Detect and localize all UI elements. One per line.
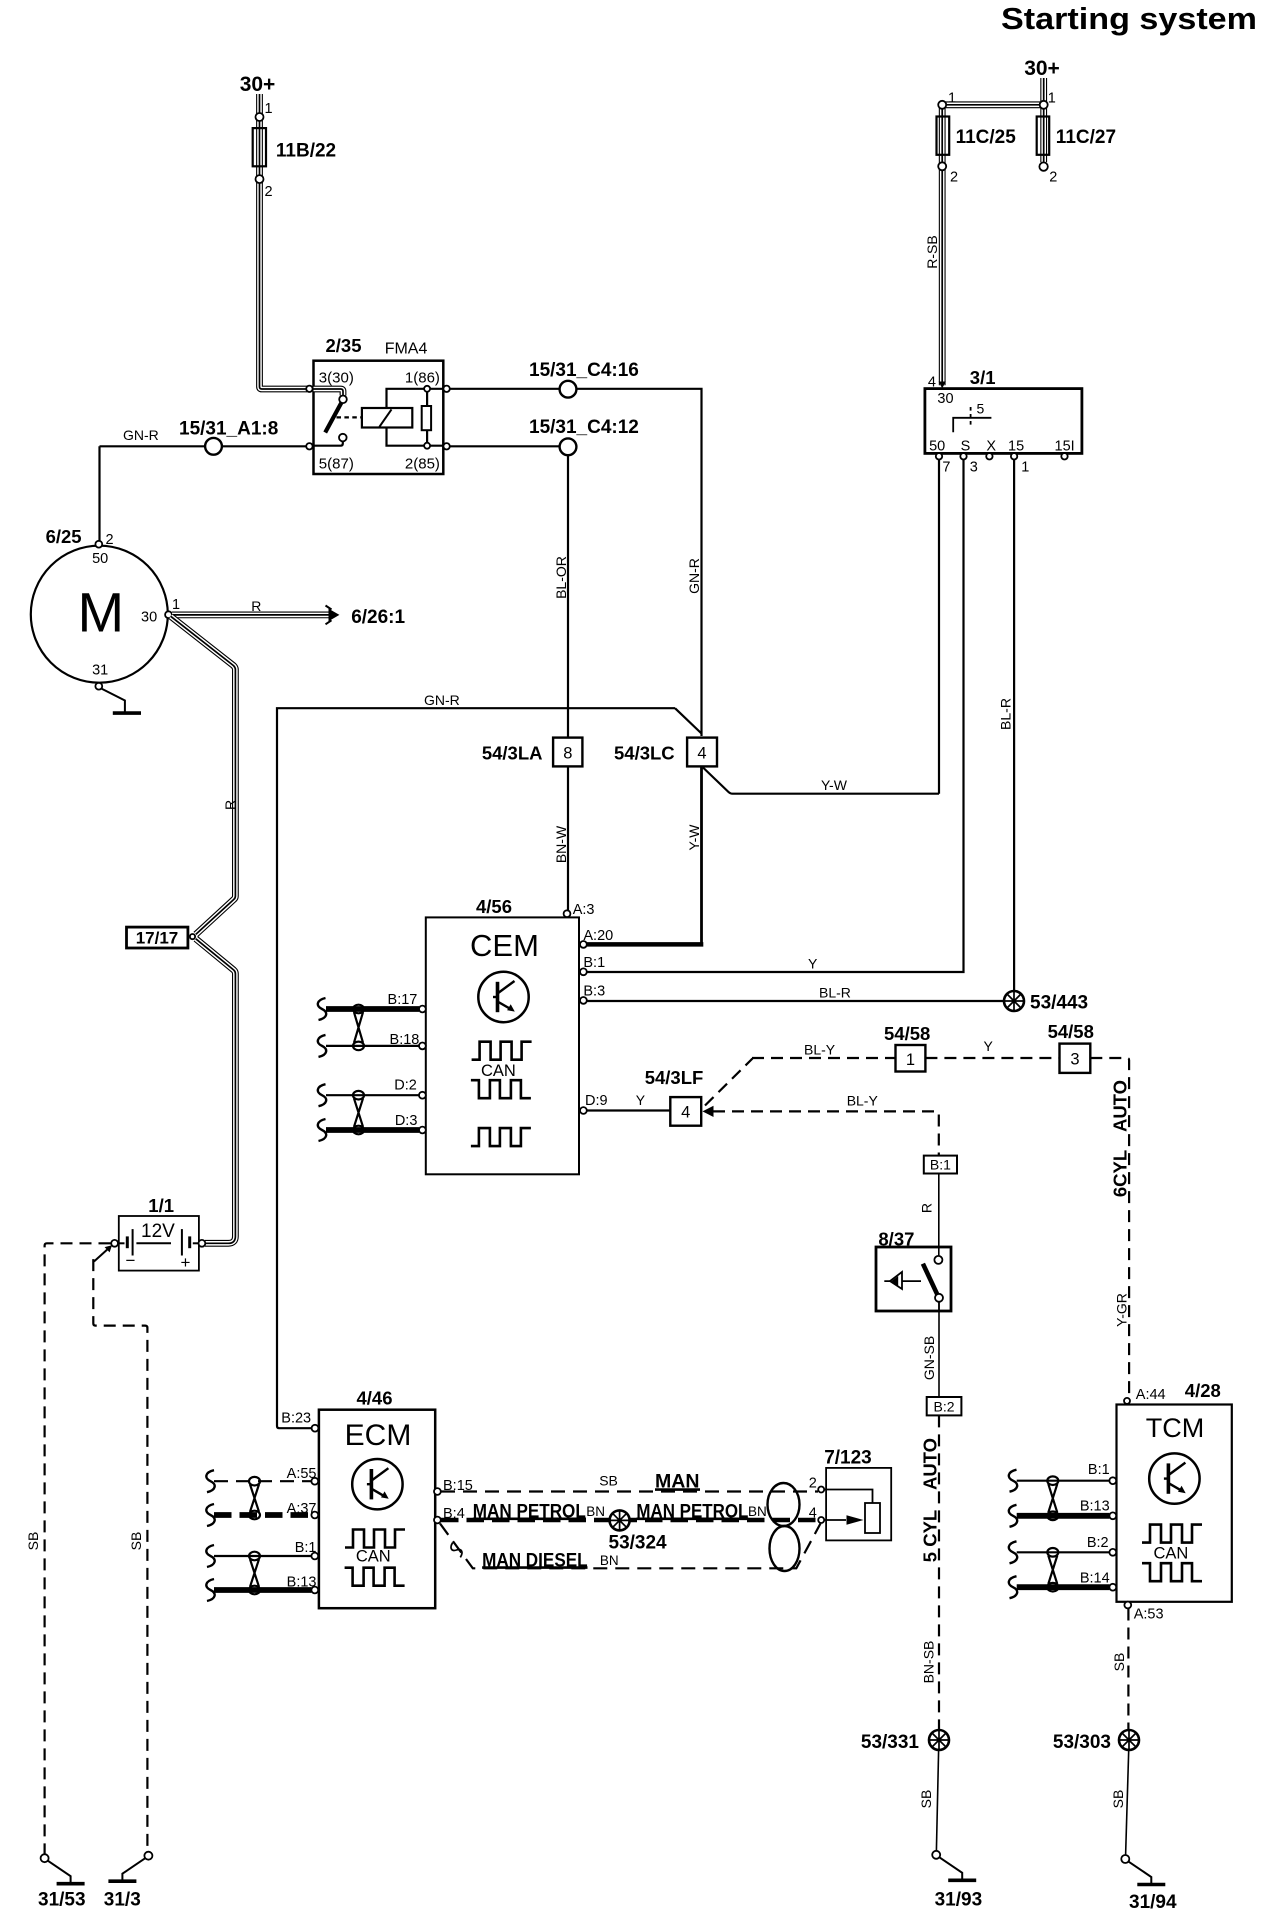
svg-text:A:3: A:3: [573, 902, 595, 918]
pin 5(87): [306, 443, 312, 449]
svg-text:R-SB: R-SB: [924, 235, 940, 268]
pin B:1 of CEM: [580, 968, 587, 975]
svg-text:B:2: B:2: [1087, 1535, 1109, 1551]
svg-text:A:55: A:55: [287, 1466, 317, 1482]
connector B:1 (to 8/37): [924, 1156, 957, 1174]
element inside 7/123: [824, 1490, 872, 1504]
svg-text:SB: SB: [1110, 1790, 1126, 1809]
wire dashed BN-SB from B:2 down to splice 53/331 (5 CYL AUTO): [938, 1415, 940, 1729]
node 1 at 11C/27: [1040, 101, 1048, 109]
wire bold dashed BN MAN PETROL from B:4 to 7/123 pin 4: [441, 1518, 818, 1523]
svg-text:2/35: 2/35: [326, 335, 362, 356]
svg-text:1: 1: [1048, 91, 1056, 107]
svg-text:1: 1: [1021, 459, 1029, 475]
svg-text:SB: SB: [599, 1473, 618, 1489]
svg-text:4: 4: [697, 745, 706, 763]
svg-text:15/31_A1:8: 15/31_A1:8: [179, 419, 278, 440]
ground 31/3: [108, 1852, 152, 1882]
wire B:18 twisted (CAN): [326, 1045, 419, 1047]
twist symbol B:1/B:13: [249, 1552, 260, 1595]
svg-text:D:2: D:2: [394, 1078, 417, 1094]
svg-text:CAN: CAN: [1154, 1545, 1189, 1563]
svg-text:2: 2: [950, 169, 958, 185]
svg-text:BL-R: BL-R: [819, 985, 851, 1001]
svg-text:2: 2: [1049, 169, 1057, 185]
wire BN-W 54/3LA down to CEM A:3: [567, 766, 569, 910]
svg-text:R: R: [222, 800, 238, 810]
svg-text:6/25: 6/25: [46, 526, 82, 547]
svg-text:54/3LC: 54/3LC: [614, 742, 675, 763]
CAN waves in TCM: [1142, 1525, 1202, 1543]
svg-text:3(30): 3(30): [319, 370, 354, 387]
svg-text:B:13: B:13: [287, 1574, 317, 1590]
svg-text:S: S: [961, 439, 971, 455]
pin 15 of 3/1: [1011, 453, 1017, 459]
svg-text:GN-R: GN-R: [424, 692, 460, 708]
svg-text:31/53: 31/53: [38, 1890, 86, 1911]
junction top rail: [424, 386, 430, 392]
svg-text:CAN: CAN: [481, 1062, 516, 1080]
wire dashed diagonal from 54/3LF up to BL-Y line: [705, 1059, 753, 1106]
pin B:23 of ECM: [312, 1425, 319, 1432]
svg-text:31/94: 31/94: [1129, 1892, 1177, 1913]
fuse 11C/27: [1037, 117, 1050, 155]
connector 54/3LA pin 8: [553, 738, 582, 767]
svg-text:SB: SB: [918, 1790, 934, 1809]
pin A:53 of TCM: [1124, 1602, 1131, 1609]
terminal 2 open at 11C/27: [1039, 162, 1047, 170]
svg-text:R: R: [251, 598, 261, 614]
pin S of 3/1: [960, 453, 966, 459]
svg-text:D:9: D:9: [585, 1093, 608, 1109]
svg-text:17/17: 17/17: [136, 929, 179, 948]
svg-text:BN: BN: [748, 1504, 767, 1519]
svg-text:X: X: [986, 439, 996, 455]
relay switch lever: [325, 403, 341, 433]
pin B:4 of ECM: [434, 1517, 441, 1524]
svg-text:54/58: 54/58: [1048, 1021, 1094, 1042]
wire contact lower to pin 5(87): [314, 441, 343, 446]
svg-text:Starting system: Starting system: [1001, 1, 1257, 36]
twist symbol TCM B:1/B:13: [1047, 1476, 1058, 1520]
svg-text:A:20: A:20: [583, 928, 613, 944]
svg-text:30+: 30+: [240, 73, 276, 96]
svg-text:B:14: B:14: [1080, 1571, 1110, 1587]
svg-text:AUTO: AUTO: [920, 1438, 941, 1490]
svg-text:3: 3: [970, 459, 978, 475]
svg-text:A:53: A:53: [1134, 1607, 1164, 1623]
pin B:15 of ECM: [434, 1488, 441, 1495]
svg-text:4/56: 4/56: [476, 896, 512, 917]
svg-text:B:1: B:1: [583, 955, 605, 971]
switch 8/37: [876, 1247, 951, 1311]
svg-text:1/1: 1/1: [148, 1195, 174, 1216]
svg-text:Y: Y: [808, 956, 818, 972]
svg-text:B:1: B:1: [295, 1540, 317, 1556]
transistor symbol in CEM: [478, 972, 528, 1022]
svg-text:1(86): 1(86): [405, 370, 440, 387]
svg-text:2: 2: [809, 1476, 817, 1492]
wire B:17 twisted (CAN): [326, 1006, 419, 1012]
wire B:13 thick twisted (CAN): [214, 1587, 311, 1593]
svg-text:Y-GR: Y-GR: [1114, 1293, 1130, 1327]
ground at motor: [102, 689, 125, 712]
wire Y from CEM D:9 to 54/3LF: [587, 1109, 671, 1111]
wire dashed SB from battery negative to ground 31/53: [45, 1243, 111, 1853]
svg-text:D:3: D:3: [395, 1113, 418, 1129]
wire dashed MAN DIESEL variant: [440, 1524, 821, 1569]
pin 15I of 3/1: [1061, 453, 1067, 459]
wire SB splice to ground 31/94: [1126, 1751, 1129, 1856]
pin 2 of 7/123: [818, 1487, 824, 1493]
wire SB splice to ground 31/93: [936, 1751, 938, 1851]
svg-text:30: 30: [937, 391, 953, 407]
svg-text:15/31_C4:16: 15/31_C4:16: [529, 360, 639, 381]
svg-text:B:3: B:3: [583, 984, 605, 1000]
svg-text:BN-W: BN-W: [553, 825, 569, 863]
svg-text:+: +: [181, 1253, 191, 1272]
svg-text:4: 4: [809, 1506, 817, 1522]
wire bottom rail to BL-OR vertical (to 54/3LA): [450, 446, 568, 737]
pin 1 (terminal 30): [165, 611, 172, 618]
node 2 of fuse 11B/22: [256, 175, 264, 183]
svg-text:53/331: 53/331: [861, 1732, 920, 1753]
wire A:37 thick dashed twisted: [214, 1512, 311, 1518]
battery disconnect lever arrow: [94, 1248, 110, 1262]
svg-text:6/26:1: 6/26:1: [351, 607, 405, 628]
svg-text:BN: BN: [586, 1504, 605, 1519]
battery terminal negative: [111, 1240, 118, 1247]
svg-text:50: 50: [929, 439, 945, 455]
wire coil bottom to 2(85) rail: [387, 428, 444, 446]
splice 53/443: [1004, 991, 1024, 1011]
wire B:14 thick twisted (CAN) TCM: [1017, 1584, 1110, 1590]
TCM 4/28: [1117, 1405, 1232, 1602]
wire dashed SB second path to ground 31/3: [93, 1259, 147, 1851]
pin 2(85): [443, 443, 449, 449]
wire dashed SB/MAN from B:15 to 7/123 pin 2: [441, 1490, 818, 1492]
svg-text:3/1: 3/1: [970, 367, 996, 388]
fuse 11B/22: [253, 128, 266, 166]
svg-text:7/123: 7/123: [824, 1448, 872, 1469]
svg-text:2: 2: [106, 532, 114, 548]
wire dashed link lever to coil: [337, 416, 362, 418]
wire Y-W 54/3LC down to CEM A:20 corner: [700, 766, 703, 944]
wire B:2 twisted (CAN) TCM: [1017, 1551, 1110, 1553]
svg-text:53/303: 53/303: [1053, 1732, 1111, 1753]
svg-text:Y: Y: [636, 1092, 646, 1108]
splice 53/303: [1119, 1730, 1139, 1750]
junction bottom rail: [424, 443, 430, 449]
wire B:13 thick twisted (CAN) TCM: [1017, 1513, 1110, 1519]
svg-text:5 CYL: 5 CYL: [920, 1510, 941, 1562]
relay switch contact upper: [339, 396, 347, 404]
svg-text:7: 7: [942, 459, 950, 475]
svg-text:BL-OR: BL-OR: [553, 556, 569, 599]
svg-text:B:1: B:1: [1088, 1462, 1110, 1478]
svg-text:4/28: 4/28: [1185, 1380, 1221, 1401]
switch 8/37 lever: [923, 1264, 938, 1295]
svg-text:1: 1: [172, 597, 180, 613]
svg-text:B:2: B:2: [933, 1399, 954, 1415]
resistor inside relay: [426, 389, 428, 446]
twist symbol A:55/A:37: [249, 1477, 260, 1519]
wire 3/1 pin 50 down to Y-W horizontal: [938, 460, 940, 794]
svg-text:1: 1: [948, 91, 956, 107]
pin 50 of 3/1: [936, 453, 942, 459]
svg-text:B:23: B:23: [281, 1411, 311, 1427]
pin 3(30): [306, 386, 312, 392]
pin A:3 of CEM: [564, 910, 571, 917]
svg-text:54/3LF: 54/3LF: [645, 1067, 704, 1088]
svg-text:53/443: 53/443: [1030, 993, 1088, 1014]
switch 8/37 actuator symbol: [884, 1280, 921, 1282]
pin D:9 of CEM: [580, 1107, 587, 1114]
svg-text:BL-Y: BL-Y: [847, 1093, 879, 1109]
wire GN-SB from 8/37 to B:2 connector: [938, 1302, 940, 1397]
svg-text:5: 5: [977, 401, 985, 417]
svg-text:GN-SB: GN-SB: [921, 1336, 937, 1380]
svg-text:R: R: [919, 1203, 935, 1213]
svg-text:12V: 12V: [141, 1221, 175, 1242]
pin 4 of 7/123: [818, 1517, 824, 1523]
wire top rail to GN-R vertical (to 54/3LC): [450, 389, 702, 736]
splice 53/324: [610, 1510, 630, 1530]
connector 15/31_C4:16: [560, 381, 577, 398]
svg-text:M: M: [77, 581, 124, 644]
wire 3/1 pin 15 down to splice 53/443 (BL-R): [1013, 460, 1015, 996]
svg-text:31/3: 31/3: [104, 1890, 141, 1911]
wire dashed Y 54/58 pin1 to pin3: [925, 1057, 1059, 1059]
twist symbol TCM B:2/B:14: [1047, 1548, 1058, 1591]
connector 54/3LC pin 4: [687, 738, 717, 767]
svg-text:A:37: A:37: [287, 1501, 317, 1517]
svg-text:4: 4: [681, 1104, 690, 1122]
CEM 4/56: [426, 917, 579, 1174]
svg-text:1: 1: [265, 101, 273, 117]
svg-text:BN: BN: [600, 1553, 619, 1568]
twist symbol B:17/B:18: [353, 1005, 364, 1050]
svg-text:11C/25: 11C/25: [956, 127, 1017, 148]
arrow to 6/26:1: [329, 609, 340, 622]
wire R from B:1 box to 8/37: [938, 1174, 940, 1256]
splice 53/331: [929, 1730, 949, 1750]
svg-text:BL-R: BL-R: [998, 698, 1014, 730]
svg-text:4/46: 4/46: [357, 1387, 393, 1408]
switch 8/37 lower contact: [935, 1294, 943, 1302]
svg-text:B:17: B:17: [388, 992, 418, 1008]
svg-text:−: −: [126, 1251, 136, 1270]
pin terminal 31: [95, 683, 102, 690]
connector 15/31_A1:8: [205, 438, 222, 455]
key position symbol 5 inside 3/1: [953, 418, 991, 433]
svg-text:A:44: A:44: [1136, 1387, 1166, 1403]
glow plug timer 7/123: [826, 1468, 891, 1541]
pin X of 3/1: [986, 453, 992, 459]
svg-text:SB: SB: [25, 1532, 41, 1551]
wire 30+ to fuse 11B/22 and down to relay 2/35 (battery cable): [260, 94, 308, 389]
svg-text:1: 1: [906, 1051, 915, 1069]
wire GN-R horizontal to ECM B:23: [277, 708, 675, 1428]
ground 31/93: [932, 1851, 976, 1881]
wire B:1 twisted (CAN) TCM: [1017, 1480, 1110, 1482]
svg-text:B:1: B:1: [930, 1157, 951, 1173]
wire thick A:20 horizontal: [587, 942, 704, 947]
pin B:3 of CEM: [580, 997, 587, 1004]
svg-text:31: 31: [92, 663, 108, 679]
relay switch contact lower: [339, 434, 347, 442]
svg-text:15I: 15I: [1055, 439, 1075, 455]
svg-text:BN-SB: BN-SB: [921, 1641, 937, 1684]
svg-text:54/58: 54/58: [884, 1023, 930, 1044]
svg-text:8/37: 8/37: [878, 1229, 914, 1250]
node 2 at 11C/25: [938, 162, 946, 170]
svg-text:BL-Y: BL-Y: [804, 1042, 836, 1058]
connector B:2: [927, 1397, 962, 1415]
wire B:1 twisted (CAN): [214, 1555, 311, 1557]
connector 15/31_C4:12: [560, 438, 577, 455]
svg-text:TCM: TCM: [1146, 1413, 1204, 1443]
node 1 at 11C/25: [938, 101, 946, 109]
svg-text:53/324: 53/324: [609, 1533, 668, 1554]
twist symbol D:2/D:3: [353, 1091, 364, 1134]
pin A:20 of CEM: [580, 941, 587, 948]
pin 2 (terminal 50): [95, 541, 102, 548]
relay coil: [362, 408, 412, 428]
svg-text:B:18: B:18: [390, 1032, 420, 1048]
switch 8/37 upper contact: [934, 1256, 942, 1264]
wire battery cable motor 30 down to battery 1/1: [171, 616, 236, 934]
wire diagonal GN-R into 54/3LC: [675, 708, 702, 733]
pin 1(86): [443, 386, 449, 392]
svg-text:6CYL: 6CYL: [1110, 1150, 1131, 1197]
svg-text:30: 30: [141, 610, 157, 626]
ground 31/94: [1121, 1855, 1165, 1885]
wire D:3 twisted (CAN): [326, 1127, 419, 1133]
transistor symbol in TCM: [1149, 1453, 1199, 1503]
svg-text:AUTO: AUTO: [1110, 1080, 1131, 1132]
svg-text:31/93: 31/93: [935, 1890, 983, 1911]
svg-text:GN-R: GN-R: [123, 427, 159, 443]
svg-text:50: 50: [92, 551, 108, 567]
svg-text:CAN: CAN: [356, 1547, 391, 1565]
svg-text:GN-R: GN-R: [686, 558, 702, 594]
svg-text:11B/22: 11B/22: [276, 140, 336, 161]
connector 17/17: [127, 927, 188, 948]
svg-text:2: 2: [265, 184, 273, 200]
node 1 of fuse 11B/22: [256, 113, 264, 121]
wire 30+ down and across to fuses 11C/25 and 11C/27 (battery cable): [942, 78, 1043, 385]
svg-text:11C/27: 11C/27: [1056, 127, 1116, 148]
arrow entry into 3/1: [939, 382, 946, 389]
svg-text:8: 8: [563, 745, 572, 763]
wire A:55 dashed twisted: [214, 1480, 311, 1482]
svg-text:SB: SB: [128, 1532, 144, 1551]
wire diagonal Y-W from 54/3LC to 3/1 pin 50 vertical: [703, 768, 939, 794]
wire cable motor 30 to 6/26:1 arrow: [172, 612, 329, 619]
CAN waves in CEM: [472, 1042, 532, 1060]
wire stubs inside 8/37: [938, 1248, 940, 1310]
wire dashed BL-Y into 54/58 pin1: [752, 1057, 896, 1059]
svg-text:30+: 30+: [1024, 57, 1060, 80]
svg-text:54/3LA: 54/3LA: [482, 742, 543, 763]
svg-text:B:13: B:13: [1080, 1498, 1110, 1514]
svg-text:Y-W: Y-W: [686, 824, 702, 851]
ECM 4/46: [319, 1410, 435, 1609]
wire D:2 twisted (CAN): [326, 1094, 419, 1096]
svg-text:FMA4: FMA4: [385, 341, 428, 358]
wire down to motor terminal 2: [98, 446, 100, 541]
svg-text:Y-W: Y-W: [821, 777, 848, 793]
wire 3/1 pin S down and left to CEM B:1 (Y): [587, 460, 964, 973]
svg-text:ECM: ECM: [345, 1419, 412, 1452]
battery terminal positive: [199, 1240, 206, 1247]
pin A:44 of TCM: [1124, 1398, 1130, 1404]
svg-text:SB: SB: [1111, 1653, 1127, 1672]
wire GN-R from left to relay pin 5(87): [100, 445, 307, 447]
svg-text:15: 15: [1008, 439, 1024, 455]
svg-text:5(87): 5(87): [319, 456, 354, 473]
wire dashed BL-Y from 54/3LF to B:1 connector (arrow into box): [703, 1106, 714, 1117]
svg-text:15/31_C4:12: 15/31_C4:12: [529, 417, 639, 438]
wire dashed from 54/58 pin3 down to TCM A:44 (6CYL AUTO / Y-GR): [1090, 1058, 1129, 1398]
CAN waves in ECM: [345, 1530, 405, 1548]
motor 6/25 starter: [31, 546, 168, 683]
svg-text:Y: Y: [984, 1038, 994, 1054]
ignition switch 3/1: [925, 389, 1082, 454]
wire coil top to 1(86) rail: [387, 389, 444, 408]
ground 31/53: [41, 1854, 85, 1884]
svg-text:CEM: CEM: [470, 928, 539, 963]
svg-text:2(85): 2(85): [405, 456, 440, 473]
wire cable inside relay pin 3(30) to switch contact: [314, 389, 344, 396]
battery plates: [111, 1242, 124, 1244]
wire dashed SB from TCM A:53 to splice 53/303: [1127, 1609, 1129, 1730]
relay 2/35: [314, 361, 444, 474]
fuse 11C/25: [937, 117, 950, 155]
svg-text:3: 3: [1070, 1051, 1079, 1069]
big twist symbol before 7/123: [768, 1483, 800, 1571]
transistor symbol in ECM: [352, 1459, 402, 1509]
battery 1/1: [119, 1216, 199, 1271]
wire BL-R CEM B:3 to splice 53/443: [587, 1000, 1007, 1002]
